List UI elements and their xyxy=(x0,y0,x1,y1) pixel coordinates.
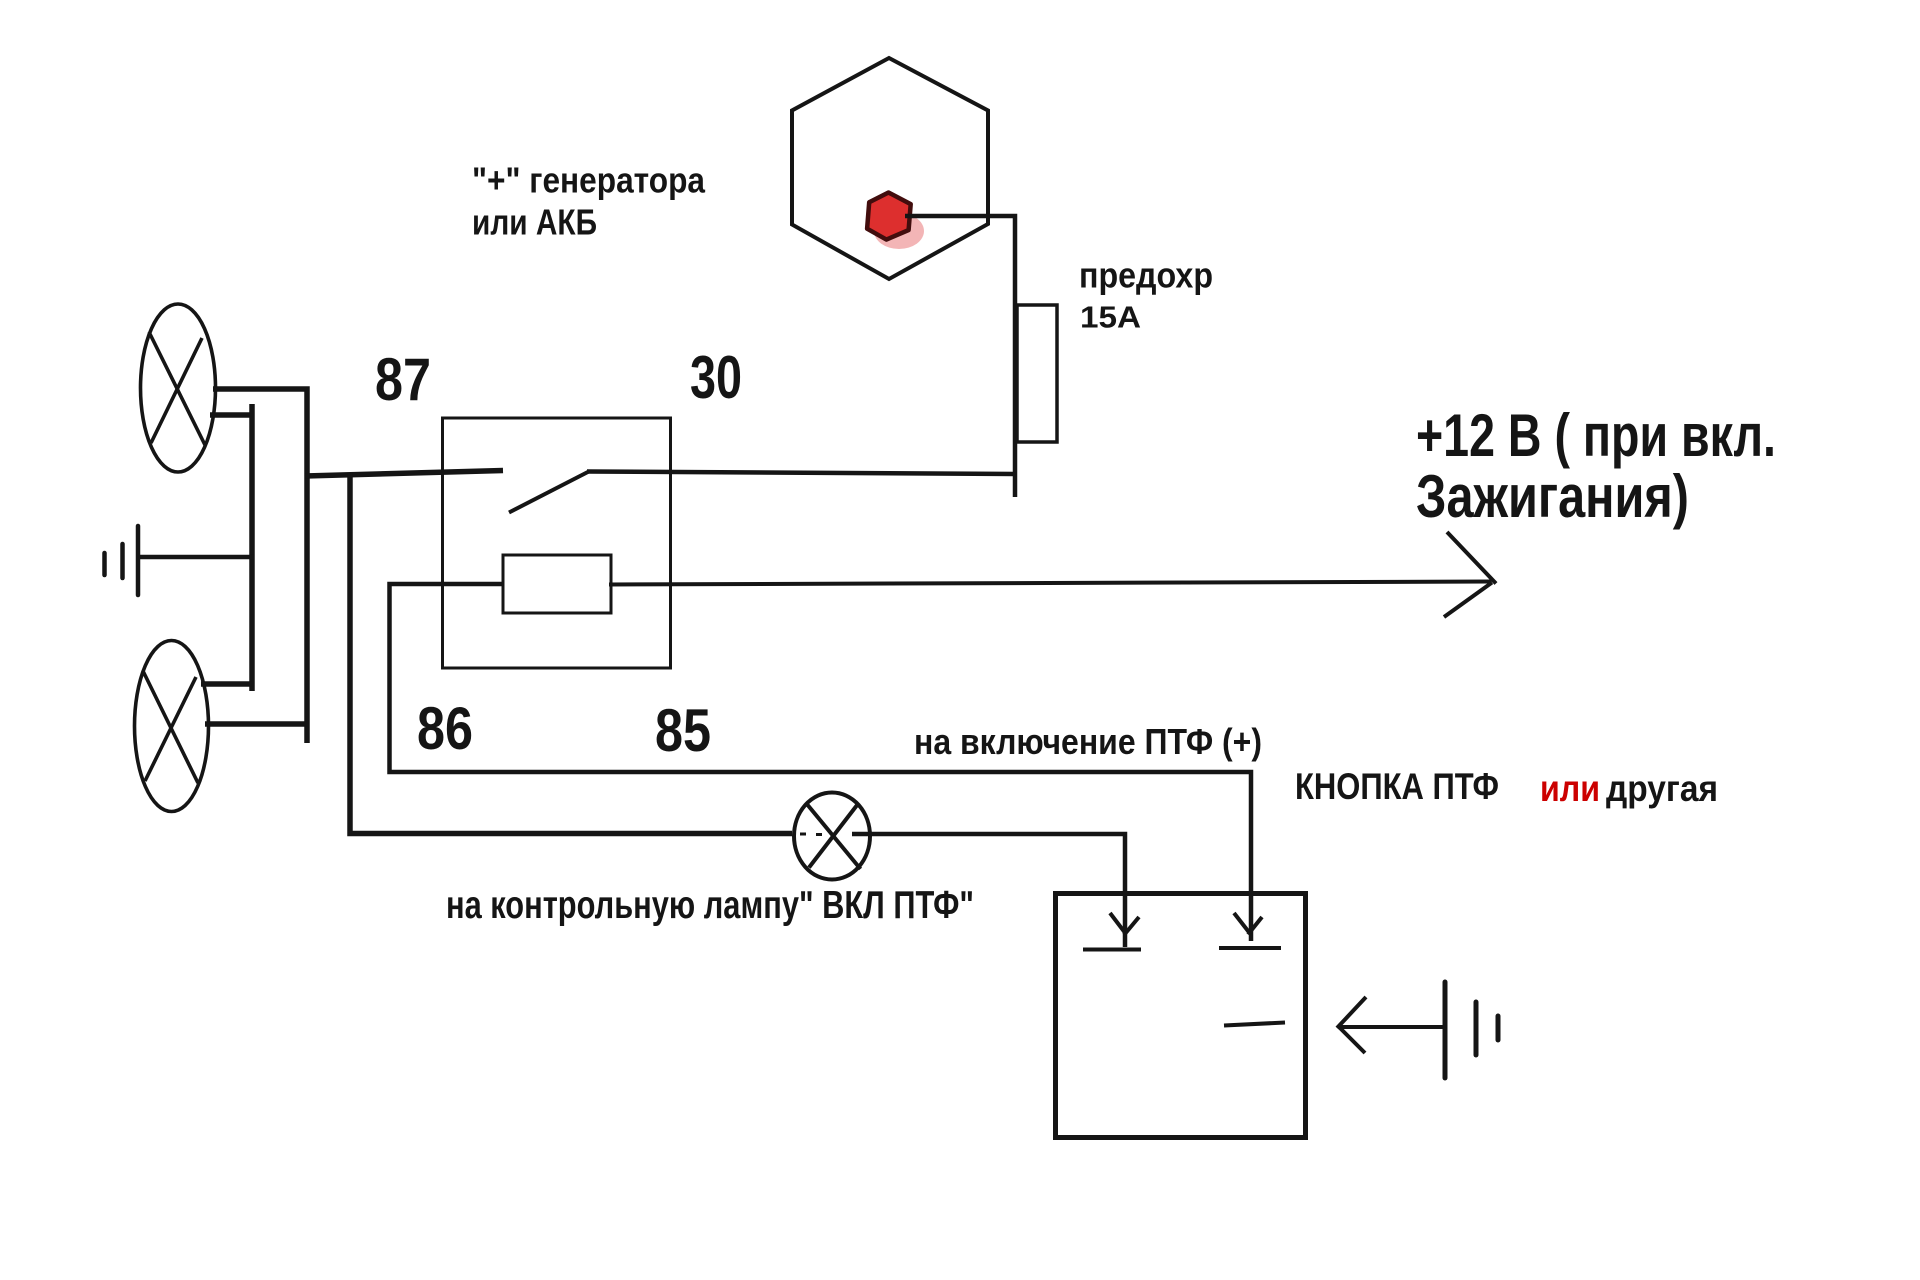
wire: coil pin 86 down and right to button (КНОПКА) xyxy=(390,584,1252,941)
svg-text:на контрольную лампу" ВКЛ ПТФ": на контрольную лампу" ВКЛ ПТФ" xyxy=(446,884,974,927)
svg-text:предохр: предохр xyxy=(1079,255,1213,296)
fuse F1 xyxy=(1017,305,1057,442)
wire: junction to control lamp xyxy=(350,473,792,834)
arrowhead +12V xyxy=(1444,532,1496,617)
svg-text:87: 87 xyxy=(375,346,431,413)
svg-text:или АКБ: или АКБ xyxy=(472,202,597,243)
relay switch contact xyxy=(509,472,589,513)
ground (left) xyxy=(105,526,139,595)
arrow from right ground to button xyxy=(1337,997,1446,1053)
wire: bolt to fuse and down to pin30 wire xyxy=(905,216,1015,497)
red terminal bolt xyxy=(867,193,924,250)
svg-text:85: 85 xyxy=(655,697,711,764)
fog lamp HL2 xyxy=(135,641,209,812)
svg-text:Зажигания): Зажигания) xyxy=(1416,463,1689,530)
wire: ground to lamp bus xyxy=(136,555,254,560)
relay K1 box xyxy=(443,418,671,668)
svg-text:"+" генератора: "+" генератора xyxy=(472,160,706,201)
button movable contact bar xyxy=(1224,1023,1285,1026)
svg-text:15А: 15А xyxy=(1080,300,1141,335)
battery terminal hexagon (generator / АКБ) xyxy=(792,58,988,279)
control lamp (ВКЛ ПТФ) xyxy=(794,793,870,880)
svg-text:КНОПКА ПТФ: КНОПКА ПТФ xyxy=(1295,766,1499,807)
svg-text:86: 86 xyxy=(417,695,473,762)
fog lamp HL1 xyxy=(141,304,216,472)
svg-text:30: 30 xyxy=(690,344,742,411)
svg-text:+12 В ( при вкл.: +12 В ( при вкл. xyxy=(1416,402,1776,469)
svg-text:или: или xyxy=(1540,768,1600,809)
button pin 2 contact bar xyxy=(1219,946,1281,950)
button box КНОПКА ПТФ xyxy=(1056,894,1306,1138)
wire: lamps bus to relay pin 87 xyxy=(305,471,503,477)
wire: HL2 terminal B to bus xyxy=(205,721,307,727)
wire: HL1 terminal B right xyxy=(210,412,252,418)
wire: control lamp to button pin 1 xyxy=(852,834,1125,947)
button pin 1 contact bar xyxy=(1083,948,1141,952)
wire: coil pin 85 to +12V arrow xyxy=(609,582,1491,585)
ground (right) xyxy=(1445,982,1498,1078)
wire: relay pin 30 to fuse junction xyxy=(587,472,1016,475)
wire: HL1 terminal A right and down bus xyxy=(213,389,307,743)
wire: bus from HL1-B down to HL2-A xyxy=(249,404,255,691)
arrowhead into button pin 2 xyxy=(1234,913,1262,935)
svg-text:на включение ПТФ (+): на включение ПТФ (+) xyxy=(914,721,1262,762)
relay coil xyxy=(503,555,611,613)
arrowhead into button pin 1 xyxy=(1110,913,1139,935)
wire: HL2 terminal A to bus xyxy=(201,681,252,687)
svg-text:другая: другая xyxy=(1606,768,1718,809)
